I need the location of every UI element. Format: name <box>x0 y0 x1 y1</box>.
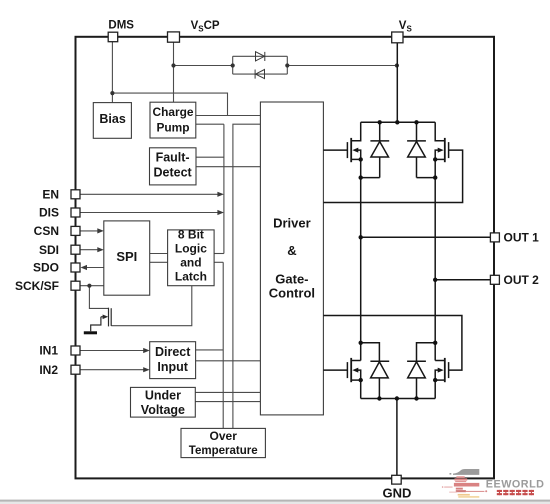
block Fault-Detect <box>150 148 197 185</box>
arrow T2 body <box>438 148 444 153</box>
node rail-diode right <box>414 120 418 124</box>
arrow T1 body <box>352 148 358 153</box>
arrow T3 body <box>352 368 358 373</box>
logo red E bars <box>456 476 464 478</box>
node low-left drain <box>359 341 363 345</box>
wire logic stub lower <box>214 261 223 263</box>
arrow IN2 into direct input <box>143 367 150 372</box>
diode D1 charge pump bridge top <box>256 52 265 61</box>
transistor T3 low-side left <box>323 358 360 399</box>
diode D5 body low-left <box>361 343 390 399</box>
junction dots thin nets <box>87 63 399 287</box>
MOSFET body arrows <box>352 148 443 373</box>
wire line C charge pump to bus1 <box>196 123 224 125</box>
svg-text:EEWORLD: EEWORLD <box>486 478 545 490</box>
terminal DMS <box>108 32 118 42</box>
arrow SDI into SPI <box>97 247 104 252</box>
wire high-right source node <box>417 177 436 179</box>
wire SCK/SF <box>80 285 104 287</box>
svg-text:IN2: IN2 <box>39 363 58 377</box>
arrow T4 body <box>438 368 444 373</box>
bus 2 driver U wire <box>233 124 261 428</box>
node VsCP bridge branch <box>171 63 175 67</box>
block Charge Pump <box>150 102 196 138</box>
wire IN1 <box>80 350 148 352</box>
svg-text:&: & <box>287 243 296 258</box>
bottom grey strip <box>0 500 550 502</box>
wire DIS <box>80 212 222 214</box>
svg-text:Gate-: Gate- <box>275 271 308 286</box>
wire GND rail <box>361 398 436 400</box>
node bridge at Vs <box>395 63 399 67</box>
wire SDO <box>86 267 104 269</box>
wire OUT2 line <box>435 279 490 281</box>
BOXES <box>93 102 323 458</box>
svg-text:Fault-: Fault- <box>156 151 190 165</box>
wire SDI <box>80 249 102 251</box>
terminal OUT1 <box>490 233 499 242</box>
svg-text:VS: VS <box>399 20 413 34</box>
wire fault-detect to bus1 <box>196 156 224 158</box>
arrow SDO toward pin <box>81 265 88 270</box>
svg-text:EN: EN <box>42 188 59 202</box>
terminal GND <box>392 475 402 484</box>
wire logic stub upper <box>214 253 224 255</box>
svg-text:SDO: SDO <box>33 261 59 275</box>
node GND-diode left <box>377 396 381 400</box>
svg-text:SCK/SF: SCK/SF <box>15 279 59 293</box>
ground symbol <box>84 331 97 334</box>
terminal SCK/SF <box>71 281 80 290</box>
svg-text:Driver: Driver <box>273 215 311 230</box>
block SPI <box>104 221 150 295</box>
terminal DIS <box>71 208 80 217</box>
svg-text:Latch: Latch <box>175 269 207 283</box>
svg-text:Pump: Pump <box>156 121 189 135</box>
wire EN <box>80 193 222 195</box>
node T3 source <box>359 378 363 382</box>
wire CSN <box>80 230 102 232</box>
logo grey swoosh <box>453 469 479 475</box>
block Bias <box>93 103 131 139</box>
node bridge right <box>285 63 289 67</box>
svg-text:Voltage: Voltage <box>141 403 185 417</box>
wire GND drop <box>396 399 398 476</box>
node DMS branch <box>110 91 114 95</box>
svg-text:Over: Over <box>210 429 238 443</box>
wire direct-input to driver <box>196 360 261 362</box>
arrow CSN into SPI <box>97 228 104 233</box>
node high-right out <box>433 175 437 179</box>
node SCK/SF branch <box>87 284 91 288</box>
node rail Vs <box>395 120 399 124</box>
logo chinese tagline blocks <box>497 490 534 495</box>
node OUT1 tee <box>359 235 363 239</box>
node GND-diode right <box>414 396 418 400</box>
wire SPI to logic upper <box>150 253 168 255</box>
svg-text:DMS: DMS <box>108 20 134 32</box>
terminal CSN <box>71 226 80 235</box>
wire under-voltage to driver lower <box>195 401 260 403</box>
wire OUT1 column <box>360 178 362 361</box>
node low-right drain <box>433 341 437 345</box>
diode D2 charge pump bridge bottom <box>255 70 264 79</box>
svg-text:Charge: Charge <box>153 105 194 119</box>
terminal SDI <box>71 245 80 254</box>
wire direct-input to bus1 <box>196 349 224 351</box>
block Driver & Gate-Control <box>260 102 323 415</box>
diode D6 body low-right <box>407 343 435 399</box>
terminal OUT2 <box>490 275 499 284</box>
bus 1 lower vertical to over-temperature <box>222 262 224 428</box>
svg-text:Control: Control <box>269 286 315 301</box>
arrow DIS into bus <box>217 210 224 215</box>
arrow EN into bus <box>217 192 224 197</box>
svg-text:DIS: DIS <box>39 206 59 220</box>
node T1 source <box>359 157 363 161</box>
TERMINAL SQUARES <box>71 32 499 484</box>
block texts <box>99 105 315 457</box>
WIRES-THIN <box>80 42 397 429</box>
svg-text:Bias: Bias <box>99 112 125 126</box>
block Direct Input <box>150 342 196 379</box>
arrowheads on signal wires <box>81 192 224 373</box>
wire logic bottom to sense FET gate <box>111 286 192 326</box>
terminal Vs <box>392 32 403 43</box>
svg-text:VSCP: VSCP <box>191 20 220 34</box>
wire Vs drop <box>396 43 398 123</box>
wire charge-pump diode bridge main <box>174 65 397 67</box>
wire IN2 <box>80 369 148 371</box>
diode D3 body high-left <box>370 122 389 177</box>
svg-text:Under: Under <box>145 389 181 403</box>
IC boundary frame <box>76 37 495 479</box>
wire under-voltage to driver upper <box>195 391 260 393</box>
svg-text:Logic: Logic <box>175 241 207 255</box>
node high-left out <box>359 175 363 179</box>
wire SCK branch to sense FET <box>89 286 108 309</box>
svg-text:Temperature: Temperature <box>189 445 258 457</box>
node T4 source <box>433 378 437 382</box>
wire DMS vertical to Bias <box>111 42 113 103</box>
svg-text:Direct: Direct <box>155 345 191 359</box>
svg-text:and: and <box>180 255 201 269</box>
wire SPI to logic lower <box>150 261 168 263</box>
block Over Temperature <box>181 428 265 457</box>
svg-text:SDI: SDI <box>39 243 59 257</box>
wire high-side rail <box>361 121 436 123</box>
arrow IN1 into direct input <box>143 348 150 353</box>
transistor T4 low-side right <box>323 316 462 399</box>
wire fault-detect to driver <box>196 166 260 168</box>
sense FET Q1 (SF pull-down) <box>91 308 112 332</box>
wire OUT1 line <box>361 236 491 238</box>
EEWORLD watermark logo <box>442 469 545 498</box>
terminal IN2 <box>71 365 80 374</box>
svg-text:Detect: Detect <box>153 165 192 179</box>
transistor T2 high-side right <box>323 122 462 202</box>
diode D4 body high-right <box>407 122 426 177</box>
svg-text:8 Bit: 8 Bit <box>178 227 204 241</box>
svg-text:OUT 2: OUT 2 <box>504 273 540 287</box>
node OUT2 tee <box>433 278 437 282</box>
node bridge left <box>231 63 235 67</box>
node GND drop <box>395 396 399 400</box>
junction dots power nets <box>359 120 438 401</box>
transistor T1 high-side left <box>323 122 360 177</box>
wire high-left source node <box>361 177 380 179</box>
svg-text:GND: GND <box>383 485 412 500</box>
H-BRIDGE power section <box>323 43 490 476</box>
terminal VsCP <box>168 32 180 42</box>
svg-text:SPI: SPI <box>116 249 137 264</box>
svg-text:Input: Input <box>157 360 188 374</box>
bus 1 upper vertical <box>223 124 225 253</box>
svg-text:OUT 1: OUT 1 <box>504 231 540 245</box>
wire DMS branch to driver line <box>112 93 227 115</box>
wire diode bridge rectangle <box>233 56 288 74</box>
terminal EN <box>71 190 80 199</box>
wire VsCP vertical to Charge Pump <box>173 42 175 102</box>
terminal SDO <box>71 263 80 272</box>
node rail-diode left <box>378 120 382 124</box>
svg-text:CSN: CSN <box>34 224 59 238</box>
svg-text:IN1: IN1 <box>39 344 58 358</box>
terminal IN1 <box>71 346 80 355</box>
block 8 Bit Logic and Latch <box>168 230 215 286</box>
node T2 source <box>433 157 437 161</box>
arrow of sense FET body <box>103 315 109 320</box>
wire OUT2 column <box>434 178 436 361</box>
block Under Voltage <box>131 387 196 417</box>
wire line B charge pump to driver <box>196 115 261 117</box>
